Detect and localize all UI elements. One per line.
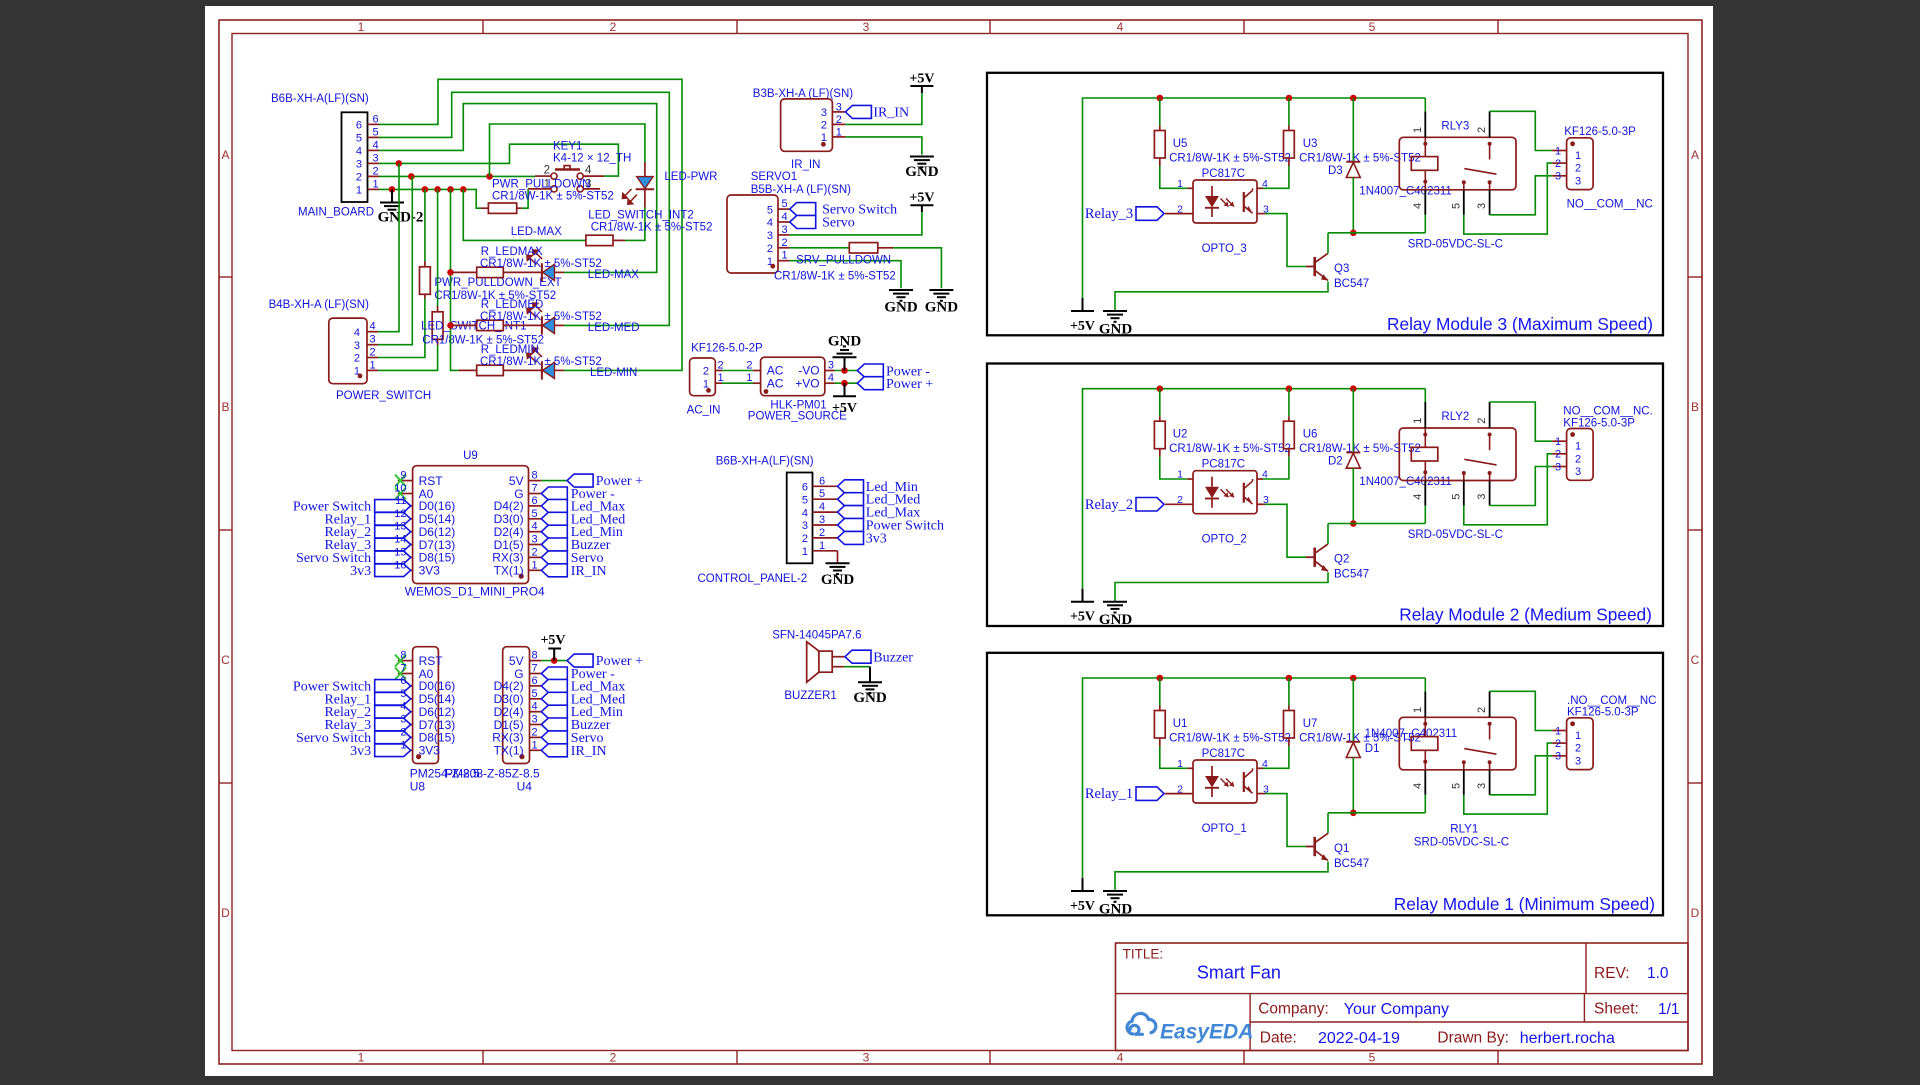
- net flag Led_Med at U4: [541, 692, 567, 705]
- wire Q3 collector up: [1327, 233, 1329, 254]
- svg-text:1: 1: [358, 1051, 365, 1065]
- svg-text:3v3: 3v3: [350, 564, 371, 579]
- RLY1 pin3 lead: [1489, 770, 1491, 795]
- svg-text:.NO__COM__NC: .NO__COM__NC: [1567, 695, 1656, 707]
- svg-text:3: 3: [819, 514, 825, 526]
- svg-text:MAIN_BOARD: MAIN_BOARD: [298, 206, 374, 218]
- svg-text:D7(13): D7(13): [419, 538, 456, 552]
- U9 pin 16 3V3: [398, 569, 413, 571]
- svg-text:4: 4: [356, 146, 362, 158]
- IC U8 PM254-Z-8.5: [413, 647, 439, 764]
- svg-text:4: 4: [1117, 20, 1124, 34]
- svg-text:D0(16): D0(16): [419, 499, 456, 513]
- svg-text:GND: GND: [828, 334, 862, 350]
- net flag Led_Min at CONTROL_PANEL-2: [838, 480, 864, 493]
- ground GND above HLK: [844, 357, 846, 370]
- svg-text:BC547: BC547: [1334, 858, 1369, 870]
- net flag Buzzer at U9: [541, 538, 567, 551]
- junction +5V at U4: [551, 657, 558, 664]
- svg-text:+5V: +5V: [1070, 899, 1095, 914]
- wire KEY1 pin1 to resistor PWR_PULLDOWN: [522, 189, 528, 208]
- U4 pin 3 D1(5): [530, 724, 542, 726]
- frame row ticks: [219, 276, 232, 278]
- svg-text:R_LEDMED: R_LEDMED: [481, 299, 544, 311]
- RLY2 pin2 common lead: [1489, 402, 1491, 428]
- svg-text:Company:: Company:: [1258, 1001, 1329, 1018]
- no-connect X on U9 RST: [395, 475, 406, 487]
- svg-text:D8(15): D8(15): [419, 731, 456, 745]
- svg-text:Q3: Q3: [1334, 263, 1349, 275]
- net flag Led_Med at U9: [541, 512, 567, 525]
- resistor PWR_PULLDOWN: [481, 207, 488, 209]
- U9 pin 7 G: [529, 493, 542, 495]
- wire POWER_SWITCH pin1 to resistor LED_SWITCH_INT1: [378, 345, 438, 370]
- svg-text:7: 7: [400, 663, 406, 675]
- U8 pin 5 D5(14): [398, 698, 413, 700]
- svg-text:CR1/8W-1K ± 5%-ST52: CR1/8W-1K ± 5%-ST52: [480, 311, 602, 323]
- power +5V at IR_IN: [921, 86, 923, 93]
- U4 pin 6 D4(2): [530, 685, 542, 687]
- svg-text:SRD-05VDC-SL-C: SRD-05VDC-SL-C: [1408, 529, 1503, 541]
- RLY2 coil: [1424, 428, 1426, 447]
- svg-text:2: 2: [782, 237, 788, 249]
- resistor U3 CR1/8W-1K: [1288, 98, 1290, 126]
- OPTO internal phototransistor module 3: [1243, 192, 1245, 212]
- svg-text:C: C: [1691, 653, 1700, 667]
- svg-text:3: 3: [356, 159, 362, 171]
- svg-text:KF126-5.0-3P: KF126-5.0-3P: [1567, 707, 1639, 719]
- svg-text:CR1/8W-1K ± 5%-ST52: CR1/8W-1K ± 5%-ST52: [591, 222, 713, 234]
- junction on pin2 row at LED-PWR branch: [486, 173, 493, 180]
- net flag Relay_1: [1136, 787, 1164, 801]
- svg-text:3: 3: [1476, 203, 1488, 209]
- svg-text:5: 5: [532, 688, 538, 700]
- pin1 marker KF module 1: [1570, 721, 1575, 726]
- BUZZER1 pin2 stub: [832, 666, 844, 668]
- svg-text:6: 6: [373, 113, 379, 125]
- net flag IR_IN: [845, 105, 871, 118]
- junction rail at D1: [1350, 675, 1357, 682]
- svg-text:CR1/8W-1K ± 5%-ST52: CR1/8W-1K ± 5%-ST52: [480, 258, 602, 270]
- svg-text:1: 1: [1575, 441, 1581, 453]
- resistor LED_SWITCH_INT1: [437, 339, 439, 345]
- svg-text:2: 2: [836, 114, 842, 126]
- svg-text:TX(1): TX(1): [494, 564, 524, 578]
- no-connect X on U8 RST: [395, 655, 406, 667]
- svg-text:IR_IN: IR_IN: [571, 744, 607, 759]
- U9 pin 12 D5(14): [398, 518, 413, 520]
- svg-text:6: 6: [400, 675, 406, 687]
- net flag Led_Med at CONTROL_PANEL-2: [838, 493, 864, 506]
- KEY1 pin1 stub: [528, 188, 551, 190]
- RLY3 pin2 common lead: [1489, 111, 1491, 137]
- svg-text:2: 2: [400, 726, 406, 738]
- svg-text:4: 4: [370, 321, 376, 333]
- svg-text:NO__COM__NC.: NO__COM__NC.: [1563, 406, 1652, 418]
- svg-text:2: 2: [802, 533, 808, 545]
- net flag Buzzer at U4: [541, 718, 567, 731]
- net flag Servo: [790, 216, 816, 229]
- svg-text:EasyEDA: EasyEDA: [1160, 1021, 1253, 1044]
- svg-text:4: 4: [828, 372, 834, 384]
- svg-text:D3(0): D3(0): [494, 692, 524, 706]
- svg-text:1: 1: [1412, 707, 1424, 713]
- svg-text:B6B-XH-A(LF)(SN): B6B-XH-A(LF)(SN): [716, 456, 814, 468]
- junction +VO: [841, 380, 848, 387]
- U8 pin 1 3V3: [398, 749, 413, 751]
- svg-text:CR1/8W-1K ± 5%-ST52: CR1/8W-1K ± 5%-ST52: [492, 191, 614, 203]
- RLY3 switch armature: [1489, 144, 1491, 160]
- RLY3 pin5 lead: [1463, 190, 1465, 215]
- junction -VO: [841, 367, 848, 374]
- U9 pin 3 D1(5): [529, 544, 542, 546]
- svg-text:5: 5: [1451, 203, 1463, 209]
- ground GND at BUZZER1: [869, 667, 871, 683]
- svg-text:U3: U3: [1303, 138, 1318, 150]
- svg-text:3v3: 3v3: [866, 531, 887, 546]
- svg-text:4: 4: [1262, 758, 1268, 770]
- svg-text:3V3: 3V3: [419, 564, 441, 578]
- wire HLK -VO to Power- flag: [835, 370, 858, 372]
- wire RLY1 pin2 to KF pin1: [1490, 691, 1553, 730]
- OPTO internal phototransistor module 1: [1243, 772, 1245, 792]
- KF module 3 pin 1 stub: [1552, 150, 1566, 152]
- RLY2 pin5 lead: [1463, 481, 1465, 506]
- wire U6 to OPTO pin4: [1263, 457, 1289, 479]
- wire net PWR from MAIN_BOARD pin2: [379, 175, 535, 177]
- CONTROL_PANEL-2 pin 6: [813, 485, 838, 487]
- svg-text:2: 2: [544, 164, 550, 176]
- svg-text:GND: GND: [1099, 322, 1133, 338]
- transistor Q1 BC547: [1265, 794, 1306, 847]
- OPTO internal LED module 1: [1211, 766, 1213, 776]
- svg-text:D: D: [1691, 906, 1700, 920]
- svg-text:4: 4: [373, 139, 379, 151]
- wire collector row module 3: [1328, 232, 1425, 234]
- frame column ticks: [482, 20, 484, 34]
- svg-text:8: 8: [532, 650, 538, 662]
- RLY3 coil: [1424, 137, 1426, 156]
- svg-text:TX(1): TX(1): [494, 744, 524, 758]
- svg-text:4: 4: [782, 211, 788, 223]
- svg-text:2: 2: [718, 359, 724, 371]
- svg-text:5: 5: [767, 204, 773, 216]
- U4 pin 8 5V: [530, 660, 542, 662]
- svg-text:U8: U8: [410, 780, 426, 794]
- pin1 marker IR_IN: [821, 142, 826, 147]
- svg-text:D7(13): D7(13): [419, 718, 456, 732]
- svg-text:3v3: 3v3: [350, 744, 371, 759]
- svg-text:KEY1: KEY1: [553, 140, 582, 152]
- svg-text:D4(2): D4(2): [494, 499, 524, 513]
- wire U5 to OPTO pin1: [1160, 166, 1187, 188]
- svg-text:D1: D1: [1365, 743, 1380, 755]
- ground GND at IR_IN: [910, 156, 934, 158]
- svg-text:1N4007_C402311: 1N4007_C402311: [1359, 185, 1452, 197]
- svg-text:3: 3: [373, 152, 379, 164]
- svg-text:5: 5: [532, 508, 538, 520]
- svg-text:Relay Module 3 (Maximum Speed): Relay Module 3 (Maximum Speed): [1387, 314, 1653, 334]
- RLY1 coil: [1424, 717, 1426, 736]
- svg-text:5: 5: [1369, 1051, 1376, 1065]
- resistor U7 CR1/8W-1K: [1288, 678, 1290, 706]
- svg-text:8: 8: [400, 650, 406, 662]
- wire SERVO1 pin2 to resistor SRV_PULLDOWN: [790, 247, 850, 249]
- U4 pin 4 D2(4): [530, 711, 542, 713]
- svg-text:15: 15: [394, 546, 406, 558]
- KF module 2 pin 2 stub: [1552, 453, 1566, 455]
- resistor U6 CR1/8W-1K: [1288, 389, 1290, 417]
- wire U4 5V to Power+ flag: [541, 660, 567, 662]
- net flag Relay_3 at U9: [375, 538, 411, 551]
- svg-text:3: 3: [532, 714, 538, 726]
- junction collector row module 1: [1350, 810, 1357, 817]
- wire Q2 emitter to GND: [1115, 572, 1328, 602]
- svg-text:OPTO_2: OPTO_2: [1202, 534, 1247, 546]
- U8 pin 4 D6(12): [398, 711, 413, 713]
- svg-text:Your Company: Your Company: [1344, 1001, 1449, 1018]
- svg-text:SERVO1: SERVO1: [751, 171, 797, 183]
- svg-text:RX(3): RX(3): [492, 551, 523, 565]
- pin1 marker POWER_SWITCH: [358, 374, 363, 379]
- svg-text:5: 5: [400, 688, 406, 700]
- svg-text:KF126-5.0-3P: KF126-5.0-3P: [1564, 126, 1636, 138]
- junction rail at U3: [1286, 95, 1293, 102]
- net flag Relay_3: [1136, 207, 1164, 221]
- svg-text:Relay Module 1 (Minimum Speed): Relay Module 1 (Minimum Speed): [1394, 894, 1655, 914]
- wire RLY3 pin2 to KF pin1: [1490, 111, 1553, 150]
- svg-text:D1(5): D1(5): [494, 538, 524, 552]
- svg-text:+5V: +5V: [909, 72, 934, 87]
- ground GND below SERVO1: [889, 289, 913, 291]
- wire D1 to collector row: [1352, 758, 1354, 813]
- pin1 marker AC_IN: [706, 388, 711, 393]
- svg-text:7: 7: [532, 663, 538, 675]
- U8 pin 7 A0: [398, 673, 413, 675]
- wire RLY2 pin3 to KF pin3: [1490, 467, 1553, 506]
- net flag Relay_2: [1136, 498, 1164, 512]
- relay module 1 outline box: [987, 653, 1663, 916]
- svg-text:6: 6: [356, 120, 362, 132]
- svg-text:Q2: Q2: [1334, 554, 1349, 566]
- svg-text:2: 2: [1575, 743, 1581, 755]
- KF module 2 pin 3 stub: [1552, 466, 1566, 468]
- net flag 3v3 at U8: [375, 744, 411, 757]
- resistor U1 CR1/8W-1K: [1159, 678, 1161, 706]
- svg-text:3: 3: [828, 359, 834, 371]
- CONTROL_PANEL-2 pin 4: [813, 511, 838, 513]
- svg-text:1.0: 1.0: [1647, 965, 1669, 982]
- KF module 1 pin 3 stub: [1552, 755, 1566, 757]
- wire SRV_PULLDOWN to GND: [893, 248, 941, 288]
- svg-text:Power +: Power +: [886, 377, 933, 392]
- wire POWER_SWITCH pin4 to pin3 row: [378, 163, 399, 331]
- wire RLY3 pin3 to KF pin3: [1490, 176, 1553, 215]
- svg-text:CR1/8W-1K ± 5%-ST52: CR1/8W-1K ± 5%-ST52: [774, 270, 896, 282]
- svg-text:2: 2: [354, 353, 360, 365]
- svg-text:1: 1: [782, 250, 788, 262]
- svg-text:12: 12: [394, 508, 406, 520]
- CONTROL_PANEL-2 pin 2: [813, 537, 838, 539]
- ground GND right of SERVO1: [929, 289, 953, 291]
- svg-text:5V: 5V: [509, 474, 524, 488]
- LED LED LEDMAX: [522, 271, 542, 273]
- svg-text:4: 4: [1262, 469, 1268, 481]
- wire U7 to OPTO pin4: [1263, 746, 1289, 768]
- svg-text:RLY3: RLY3: [1441, 121, 1469, 133]
- svg-text:3: 3: [1555, 171, 1561, 183]
- svg-text:GND: GND: [905, 164, 939, 180]
- power +5V module 1: [1082, 878, 1084, 891]
- svg-text:3: 3: [802, 520, 808, 532]
- RLY1 pin5 lead: [1463, 770, 1465, 795]
- svg-text:CR1/8W-1K ± 5%-ST52: CR1/8W-1K ± 5%-ST52: [1169, 443, 1291, 455]
- svg-text:IR_IN: IR_IN: [791, 159, 820, 171]
- KF module 3 pin 2 stub: [1552, 162, 1566, 164]
- svg-text:SRD-05VDC-SL-C: SRD-05VDC-SL-C: [1414, 837, 1509, 849]
- wire collector row module 2: [1328, 523, 1425, 525]
- junction rail at U7: [1286, 675, 1293, 682]
- pin1 marker U8: [416, 754, 421, 759]
- RLY3 pin3 lead: [1489, 190, 1491, 215]
- U9 pin 11 D0(16): [398, 505, 413, 507]
- ground GND at CONTROL_PANEL-2: [826, 562, 850, 564]
- svg-text:POWER_SWITCH: POWER_SWITCH: [336, 390, 431, 402]
- module POWER_SOURCE HLK-PM01: [753, 370, 761, 372]
- svg-text:U9: U9: [463, 450, 478, 462]
- svg-text:AC_IN: AC_IN: [687, 405, 721, 417]
- svg-text:D0(16): D0(16): [419, 679, 456, 693]
- wire U9 5V to Power+ flag: [541, 480, 567, 482]
- U9 pin 9 RST: [398, 480, 413, 482]
- svg-text:7: 7: [532, 483, 538, 495]
- svg-text:Relay Module 2 (Medium Speed): Relay Module 2 (Medium Speed): [1399, 605, 1652, 625]
- svg-text:1: 1: [1575, 730, 1581, 742]
- net flag Power - at U9: [541, 487, 567, 500]
- U8 pin 3 D7(13): [398, 724, 413, 726]
- svg-text:LED-MAX: LED-MAX: [511, 226, 562, 238]
- wire LED-PWR cathode down to LED_SWITCH_INT2 row: [625, 208, 645, 241]
- KF module 1 pin 1 stub: [1552, 730, 1566, 732]
- KF module 3 pin 3 stub: [1552, 175, 1566, 177]
- power +5V at SERVO1: [921, 205, 923, 212]
- CONTROL_PANEL-2 pin 1: [813, 550, 838, 552]
- svg-text:D4(2): D4(2): [494, 679, 524, 693]
- RLY2 pin1 lead: [1424, 402, 1426, 428]
- diode D1 1N4007: [1352, 678, 1354, 742]
- power +5V below HLK: [844, 383, 846, 396]
- svg-text:RST: RST: [419, 474, 444, 488]
- svg-text:OPTO_1: OPTO_1: [1202, 823, 1247, 835]
- net flag Power Switch at U8: [375, 680, 411, 693]
- svg-text:NO__COM__NC: NO__COM__NC: [1567, 199, 1653, 211]
- net flag Led_Min at U4: [541, 705, 567, 718]
- resistor U2 CR1/8W-1K: [1159, 389, 1161, 417]
- sheet outer border: [219, 20, 1702, 1064]
- net flag Servo at U4: [541, 731, 567, 744]
- svg-text:GND: GND: [853, 690, 887, 706]
- resistor U5 CR1/8W-1K: [1159, 98, 1161, 126]
- junction rail at U5: [1157, 95, 1164, 102]
- junctions on GND row: [389, 186, 396, 193]
- transistor Q3 BC547: [1265, 214, 1306, 267]
- svg-text:Sheet:: Sheet:: [1594, 1001, 1639, 1018]
- schematic sheet: [205, 6, 1713, 1076]
- svg-text:2: 2: [610, 1051, 617, 1065]
- svg-text:5: 5: [802, 494, 808, 506]
- junction collector row module 2: [1350, 520, 1357, 527]
- svg-text:4: 4: [532, 701, 538, 713]
- svg-text:LED_SWITCH_INT2: LED_SWITCH_INT2: [588, 210, 693, 222]
- wire +5V rail module 1: [1083, 678, 1426, 878]
- resistor R_LEDMED: [452, 324, 477, 326]
- svg-text:6: 6: [532, 675, 538, 687]
- svg-text:2: 2: [1555, 449, 1561, 461]
- svg-text:5: 5: [819, 488, 825, 500]
- svg-text:1: 1: [1177, 469, 1183, 481]
- svg-text:2: 2: [703, 366, 709, 378]
- svg-text:IR_IN: IR_IN: [571, 564, 607, 579]
- svg-text:B6B-XH-A(LF)(SN): B6B-XH-A(LF)(SN): [271, 93, 369, 105]
- svg-text:CR1/8W-1K ± 5%-ST52: CR1/8W-1K ± 5%-ST52: [1169, 153, 1291, 165]
- diode D2 1N4007: [1352, 389, 1354, 453]
- wire +5V rail module 2: [1083, 389, 1426, 589]
- svg-text:2: 2: [819, 527, 825, 539]
- svg-text:D5(14): D5(14): [419, 512, 456, 526]
- net flag Power - at U4: [541, 667, 567, 680]
- svg-text:4: 4: [585, 164, 592, 176]
- svg-text:5: 5: [356, 133, 362, 145]
- resistor R_LEDMAX: [452, 271, 477, 273]
- svg-text:1: 1: [746, 372, 752, 384]
- U4 pin 2 RX(3): [530, 736, 542, 738]
- svg-text:2: 2: [1555, 158, 1561, 170]
- wire RLY2 pin2 to KF pin1: [1490, 402, 1553, 441]
- svg-text:3: 3: [1555, 461, 1561, 473]
- svg-text:4: 4: [802, 507, 808, 519]
- net flag Led_Max at U4: [541, 679, 567, 692]
- svg-text:1: 1: [1555, 145, 1561, 157]
- wire net PWR to LED-PWR anode: [490, 124, 645, 176]
- svg-text:5: 5: [782, 198, 788, 210]
- net flag Led_Min at U9: [541, 525, 567, 538]
- no-connect X on U9 A0: [395, 488, 406, 500]
- svg-text:+5V: +5V: [909, 191, 934, 206]
- wire net LED-MAX from MAIN_BOARD pin4: [379, 104, 657, 273]
- wire U1 to OPTO pin1: [1160, 746, 1187, 768]
- pin1 marker U9: [519, 574, 524, 579]
- wire resistor LED_SWITCH_INT1 to GND row: [437, 189, 439, 306]
- wire RLY1 pin3 to KF pin3: [1490, 756, 1553, 795]
- svg-text:3: 3: [1476, 494, 1488, 500]
- svg-text:LED-MAX: LED-MAX: [588, 269, 639, 281]
- svg-text:1: 1: [1177, 178, 1183, 190]
- wire BUZZER1 pin2 to GND: [844, 666, 870, 668]
- resistor SRV_PULLDOWN: [849, 243, 878, 253]
- U4 pin 5 D3(0): [530, 698, 542, 700]
- svg-text:5: 5: [1369, 20, 1376, 34]
- resistor R_LEDMIN: [459, 369, 477, 371]
- svg-text:4: 4: [819, 501, 825, 513]
- svg-text:2: 2: [746, 359, 752, 371]
- svg-text:Date:: Date:: [1260, 1030, 1297, 1047]
- svg-text:4: 4: [1412, 783, 1424, 789]
- svg-text:LED-MED: LED-MED: [588, 322, 640, 334]
- svg-text:Drawn By:: Drawn By:: [1437, 1030, 1509, 1047]
- net flag Servo Switch: [790, 203, 816, 216]
- relay module 2 outline box: [987, 364, 1663, 627]
- KF module 2 pin 1 stub: [1552, 440, 1566, 442]
